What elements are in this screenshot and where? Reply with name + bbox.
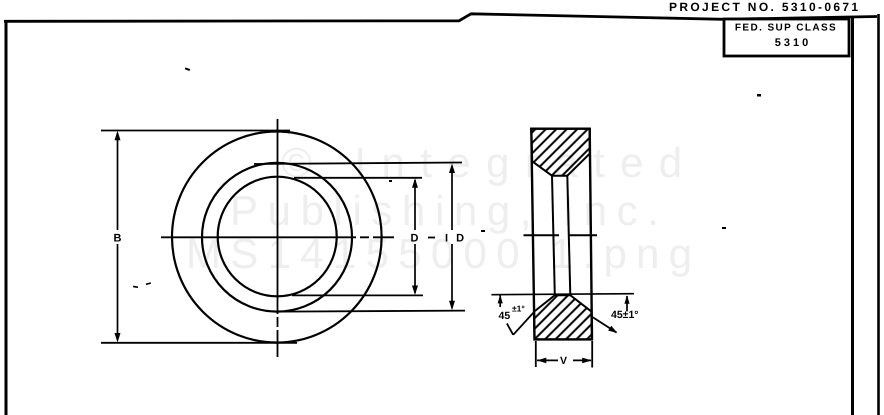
dimension B top arrowhead	[115, 131, 121, 141]
section bottom hatched area	[534, 295, 592, 339]
dimension D bottom extension line	[292, 294, 423, 296]
speck marks	[185, 67, 190, 71]
top border line	[4, 14, 877, 21]
dimension B bottom arrowhead	[115, 333, 121, 343]
dimension V right extension line	[591, 341, 593, 368]
dimension D top extension line	[294, 177, 422, 179]
fed sup class box	[724, 19, 849, 56]
dimension B bottom extension line	[101, 342, 297, 344]
dimension V left extension line	[535, 341, 537, 367]
right bore wall	[567, 176, 570, 296]
inner circle (diameter D)	[218, 177, 337, 297]
dimension ID bottom arrowhead	[449, 301, 455, 311]
section view outline	[531, 129, 592, 340]
dimension B line upper segment	[117, 133, 119, 230]
left 45 deg reference line	[491, 294, 634, 295]
dimension ID bottom extension line	[280, 311, 465, 312]
dimension V line right segment with arrowhead	[573, 359, 591, 361]
vertical centerline of circle view	[277, 119, 279, 357]
section horizontal centerline left part	[524, 234, 560, 236]
svg-text:Publishing, Inc.: Publishing, Inc.	[230, 187, 668, 234]
left 45 deg vertical arrow	[499, 295, 501, 307]
dimension D top arrowhead	[412, 178, 418, 188]
right 45 deg diagonal leader with arrowhead	[592, 317, 617, 333]
dimension D bottom arrowhead	[412, 286, 418, 296]
right outer border line	[877, 14, 880, 415]
dimension ID line upper segment	[451, 166, 453, 230]
right 45 deg vertical arrow	[626, 296, 628, 311]
horizontal centerline of circle view	[161, 236, 394, 238]
middle circle (diameter ID)	[202, 163, 352, 312]
svg-text:PROJECT NO. 5310-0671: PROJECT NO. 5310-0671	[669, 0, 860, 14]
dimension ID top arrowhead	[449, 164, 455, 174]
dimension B top extension line	[101, 130, 290, 132]
svg-text:I D: I D	[445, 233, 467, 245]
svg-text:FED. SUP CLASS: FED. SUP CLASS	[735, 23, 837, 34]
section top hatched area	[531, 129, 590, 176]
left bore wall	[552, 176, 555, 296]
dimension V line left segment with arrowhead	[537, 359, 558, 361]
svg-text:45±1°: 45±1°	[611, 309, 638, 321]
svg-text:V: V	[560, 355, 567, 367]
section horizontal centerline right part	[568, 234, 597, 236]
left border line	[5, 20, 8, 415]
dimension ID line lower segment	[451, 244, 453, 308]
right inner border line	[851, 17, 854, 415]
dimension B line lower segment	[117, 244, 119, 340]
svg-text:±1°: ±1°	[512, 304, 525, 314]
dimension ID top extension line	[254, 163, 462, 165]
dimension D line upper segment	[414, 180, 416, 230]
left 45 deg diagonal leader with open arrowhead	[513, 312, 534, 335]
svg-text:B: B	[114, 233, 122, 245]
svg-text:45: 45	[499, 310, 511, 322]
dimension D line lower segment	[414, 244, 416, 293]
outer circle (diameter B)	[172, 132, 382, 343]
svg-text:5310: 5310	[775, 37, 811, 49]
centerline dash between D and ID	[428, 237, 435, 239]
svg-text:D: D	[411, 233, 419, 245]
